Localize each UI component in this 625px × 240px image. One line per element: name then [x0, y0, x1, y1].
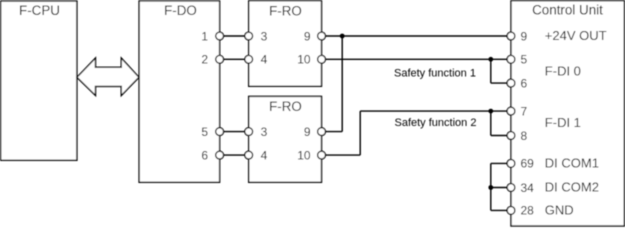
F-DO module box	[139, 1, 220, 182]
wire bracket pin5 to pin6 vertical	[490, 59, 492, 83]
wire bracket pin69 to pin28 vertical	[490, 163, 492, 210]
svg-text:F-DO: F-DO	[164, 3, 197, 18]
wire bracket pin28 stub	[491, 209, 511, 211]
Control Unit pin 5	[507, 53, 527, 67]
lower F-RO pin 3	[245, 125, 268, 139]
svg-text:7: 7	[521, 104, 528, 118]
wire safety function 2 vertical riser	[359, 111, 361, 155]
wire bracket pin34 stub	[491, 187, 511, 189]
svg-text:5: 5	[201, 125, 208, 139]
Control Unit pin 69	[507, 157, 534, 171]
wire F-DO pin1 to F-RO pin3	[220, 35, 249, 37]
Control Unit pin 7	[507, 104, 527, 118]
wire bracket pin7 to pin8 vertical	[490, 111, 492, 135]
F-RO module box (upper)	[249, 1, 322, 87]
svg-text:8: 8	[521, 129, 528, 143]
svg-text:6: 6	[521, 76, 528, 90]
F-DO pin 6	[201, 148, 223, 162]
svg-text:Safety function 2: Safety function 2	[395, 117, 477, 129]
wire safety function 1: upper F-RO pin10 to Control Unit pin5	[322, 58, 512, 60]
F-DO pin 5	[201, 125, 223, 139]
svg-text:+24V OUT: +24V OUT	[545, 28, 607, 43]
junction dot at Control Unit pin5 branch	[488, 57, 493, 62]
svg-text:69: 69	[521, 157, 535, 171]
svg-text:10: 10	[297, 53, 311, 67]
F-DO pin 1	[201, 29, 223, 43]
lower F-RO pin 9	[304, 125, 325, 139]
wire bracket pin8 stub	[491, 135, 511, 137]
svg-text:4: 4	[261, 148, 268, 162]
svg-text:5: 5	[521, 53, 528, 67]
svg-text:6: 6	[201, 148, 208, 162]
lower F-RO pin 4	[245, 148, 268, 162]
svg-text:9: 9	[521, 29, 528, 43]
svg-text:1: 1	[201, 29, 208, 43]
svg-text:DI COM2: DI COM2	[545, 180, 599, 195]
svg-text:3: 3	[261, 29, 268, 43]
svg-text:DI COM1: DI COM1	[545, 155, 599, 170]
svg-text:Control Unit: Control Unit	[532, 2, 603, 17]
svg-text:9: 9	[304, 29, 311, 43]
svg-text:F-DI 1: F-DI 1	[545, 115, 581, 130]
svg-text:9: 9	[304, 125, 311, 139]
svg-text:GND: GND	[545, 202, 574, 217]
svg-text:F-CPU: F-CPU	[19, 3, 60, 18]
Control Unit pin 9	[507, 29, 527, 43]
svg-text:3: 3	[261, 125, 268, 139]
svg-text:Safety function 1: Safety function 1	[394, 68, 476, 80]
wire lower F-RO pin9 stub	[322, 131, 343, 133]
Control Unit pin 6	[507, 76, 527, 90]
upper F-RO pin 3	[245, 29, 268, 43]
Control Unit pin 8	[507, 129, 527, 143]
Control Unit box	[511, 1, 624, 226]
wire bracket pin69 stub	[491, 162, 511, 164]
wire F-DO pin5 to lower F-RO pin3	[220, 131, 249, 133]
wire F-DO pin6 to lower F-RO pin4	[220, 154, 249, 156]
wire bracket pin6 stub	[491, 82, 511, 84]
Control Unit pin 34	[507, 181, 534, 195]
junction dot on +24V wire	[340, 34, 345, 39]
svg-text:2: 2	[201, 53, 208, 67]
wire safety function 2 to Control Unit pin7	[360, 110, 511, 112]
bidirectional bus arrow between F-CPU and F-DO	[77, 58, 139, 96]
svg-text:F-DI 0: F-DI 0	[545, 63, 581, 78]
upper F-RO pin 9	[304, 29, 325, 43]
F-DO pin 2	[201, 53, 223, 67]
upper F-RO pin 4	[245, 53, 268, 67]
F-CPU module box	[1, 1, 77, 160]
junction dot at pin34 branch	[488, 185, 493, 190]
upper F-RO pin 10	[297, 53, 325, 67]
junction dot at Control Unit pin7 branch	[488, 109, 493, 114]
wire +24V: upper F-RO pin9 to Control Unit pin9	[322, 35, 512, 37]
svg-text:28: 28	[521, 204, 535, 218]
wire safety function 2: lower F-RO pin10 stub	[322, 154, 361, 156]
lower F-RO pin 10	[297, 148, 325, 162]
svg-text:34: 34	[521, 181, 535, 195]
svg-text:F-RO: F-RO	[269, 99, 302, 114]
F-RO module box (lower)	[249, 96, 322, 182]
wire F-DO pin2 to F-RO pin4	[220, 58, 249, 60]
wire branch vertical from +24V node down to lower F-RO pin9	[341, 36, 343, 132]
Control Unit pin 28	[507, 204, 534, 218]
svg-text:4: 4	[261, 53, 268, 67]
svg-text:F-RO: F-RO	[269, 3, 302, 18]
svg-text:10: 10	[297, 148, 311, 162]
